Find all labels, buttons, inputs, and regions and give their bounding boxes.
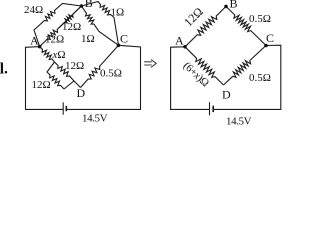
- svg-text:0.5Ω: 0.5Ω: [249, 13, 271, 25]
- resistor 12ohm parallelogram left side: [47, 62, 64, 89]
- wire V4 to peak to D: [64, 81, 81, 89]
- svg-text:A: A: [175, 34, 184, 48]
- wire battery to right side up to C: [66, 45, 140, 109]
- battery right long plate: [209, 102, 211, 115]
- resistor 1ohm bypass B-C: [81, 2, 118, 46]
- svg-text:24Ω: 24Ω: [24, 4, 43, 16]
- svg-text:C: C: [266, 31, 274, 45]
- node B left circuit: [80, 4, 84, 8]
- battery left long plate: [62, 102, 64, 114]
- svg-text:14.5V: 14.5V: [226, 116, 252, 128]
- battery right short plate: [212, 106, 214, 113]
- resistor 24ohm bypass A-B: [34, 4, 81, 47]
- wire A2 to left side right circuit: [171, 47, 210, 110]
- resistor 0.5ohm D2-C2: [224, 46, 267, 86]
- node C2 right circuit: [264, 44, 268, 48]
- resistor 0.5ohm B2-C2: [226, 6, 266, 45]
- svg-text:12Ω: 12Ω: [181, 4, 206, 29]
- battery left short plate: [65, 106, 67, 111]
- svg-text:12Ω: 12Ω: [45, 34, 64, 46]
- svg-text:1Ω: 1Ω: [81, 33, 95, 45]
- node A left circuit: [38, 45, 42, 49]
- resistor (6+x)ohm A2-D2: [185, 47, 224, 85]
- svg-text:B: B: [85, 0, 93, 10]
- resistor 12ohm parallelogram right side: [55, 62, 75, 81]
- svg-text:1Ω: 1Ω: [111, 7, 125, 19]
- resistor 12ohm upper on A-B diagonal: [59, 6, 81, 28]
- svg-text:xΩ: xΩ: [52, 49, 66, 61]
- resistor 12ohm A2-B2: [185, 6, 226, 46]
- svg-text:12Ω: 12Ω: [62, 21, 81, 33]
- implies arrow: [144, 59, 156, 67]
- resistor x-ohm from A: [40, 47, 55, 62]
- svg-text:12Ω: 12Ω: [65, 60, 84, 72]
- svg-text:ol.: ol.: [0, 61, 8, 78]
- node A2 right circuit: [183, 45, 187, 49]
- node C left circuit: [117, 44, 121, 48]
- svg-text:D: D: [77, 86, 86, 100]
- svg-text:12Ω: 12Ω: [32, 79, 51, 91]
- svg-text:B: B: [230, 0, 238, 11]
- resistor 1ohm on B-C direct: [81, 6, 118, 45]
- svg-text:C: C: [120, 32, 128, 46]
- wire A to left side and bottom: [26, 47, 64, 110]
- resistor 0.5ohm D-C: [81, 45, 119, 87]
- svg-text:0.5Ω: 0.5Ω: [100, 68, 122, 80]
- svg-text:0.5Ω: 0.5Ω: [249, 72, 271, 84]
- resistor 12ohm lower on A-B diagonal: [40, 6, 82, 47]
- svg-text:D: D: [222, 88, 231, 102]
- wire battery2 to right side up to C2: [213, 45, 281, 109]
- node B2 right circuit: [224, 5, 228, 9]
- svg-text:14.5V: 14.5V: [82, 113, 108, 125]
- svg-text:A: A: [30, 34, 39, 48]
